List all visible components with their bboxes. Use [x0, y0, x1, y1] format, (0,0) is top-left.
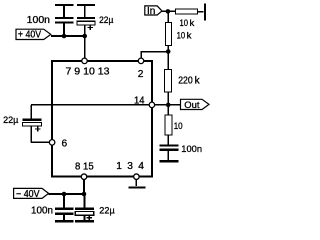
wire rail down to supply pins [84, 36, 86, 58]
wire pin 1 3 4 to ground [135, 180, 137, 186]
wire -40V rail [49, 193, 85, 195]
wire R3 to output node [167, 92, 169, 105]
wire In to node [162, 10, 168, 12]
svg-text:22µ: 22µ [3, 115, 19, 126]
capacitor C3 22u (bootstrap, left) [30, 105, 32, 119]
svg-text:4: 4 [138, 161, 144, 172]
svg-text:6: 6 [62, 138, 68, 149]
svg-text:+ 40V: + 40V [18, 30, 42, 41]
node on -40V rail at C5 [62, 192, 67, 197]
resistor R3 220k (feedback) [165, 69, 172, 92]
wire R2 to node A [167, 46, 169, 52]
resistor R4 10 (Zobel) [165, 115, 172, 135]
wire feedback line C3 to pin 14 [31, 104, 149, 106]
plus sign of C2 [88, 25, 93, 30]
supply tag -40V [14, 188, 49, 198]
wire C3 to pin 6 [31, 141, 49, 143]
svg-text:Out: Out [184, 100, 200, 111]
plus sign of C3 [35, 126, 40, 131]
pin 8 15 circle [81, 174, 87, 180]
resistor R2 10k (vertical) [166, 22, 172, 45]
wire R4 to C4 [167, 135, 169, 144]
node A (R2/R3/pin 2 junction) [166, 49, 171, 54]
pin 14 circle [149, 102, 155, 108]
wire node A to R3 [167, 52, 169, 70]
wire node B down to R4 [167, 105, 169, 115]
plus sign of C6 [87, 215, 92, 220]
svg-text:In: In [147, 6, 155, 17]
node B (output junction) [166, 103, 171, 108]
pin 2 circle [138, 58, 144, 64]
svg-text:22µ: 22µ [99, 206, 115, 217]
node on rail at C1 [62, 34, 67, 39]
svg-text:100n: 100n [27, 15, 51, 26]
ground (below C6) [75, 220, 94, 222]
pin 6 circle [49, 140, 55, 146]
svg-text:10: 10 [180, 18, 189, 29]
ground (below C4) [159, 160, 178, 162]
wire pin 8 15 down to -40V rail [83, 180, 85, 194]
svg-text:2: 2 [138, 69, 144, 80]
capacitor C5 100n (bottom decoupling) [63, 194, 65, 208]
ground (below C5) [55, 220, 74, 222]
pin 1 3 4 circle [134, 174, 140, 180]
capacitor C6 22u (bottom electrolytic) [83, 194, 85, 208]
capacitor C2 22u (top electrolytic) [84, 6, 86, 17]
svg-text:100n: 100n [181, 144, 202, 155]
capacitor C1 100n (top left decoupling) [63, 6, 65, 17]
wire pin 14 to output node [155, 104, 168, 106]
svg-text:7 9 10 13: 7 9 10 13 [66, 67, 110, 78]
svg-text:10: 10 [174, 121, 183, 132]
ground (below pins 1 3 4) [129, 186, 146, 188]
capacitor C4 100n (Zobel) [159, 144, 178, 146]
ground (right of R1) [204, 4, 206, 21]
wire node to R1 [168, 10, 175, 12]
svg-text:3: 3 [127, 161, 133, 172]
svg-text:k: k [187, 31, 192, 42]
svg-text:k: k [190, 18, 195, 29]
ground (top, above C2) [77, 4, 95, 6]
svg-text:10: 10 [177, 31, 186, 42]
node at In [166, 9, 171, 14]
svg-text:220: 220 [178, 75, 193, 86]
node on -40V rail at C6 [82, 192, 87, 197]
supply tag +40V [16, 29, 51, 39]
svg-text:22µ: 22µ [99, 15, 114, 25]
svg-text:8 15: 8 15 [75, 161, 94, 172]
wire node A to pin 2 [141, 52, 168, 59]
output tag Out [181, 99, 210, 109]
ground (top-left, above C1) [55, 4, 73, 6]
svg-text:1: 1 [116, 161, 122, 172]
wire +40V rail [51, 35, 86, 37]
wire node down to R2 [167, 11, 169, 22]
wire R1 to ground bar [198, 11, 204, 13]
input tag In [145, 6, 162, 15]
svg-text:− 40V: − 40V [16, 189, 40, 200]
resistor R1 10k (horizontal, to ground) [175, 9, 197, 14]
op-amp IC U1 body [52, 61, 152, 177]
svg-text:14: 14 [134, 95, 145, 106]
svg-text:100n: 100n [31, 206, 53, 217]
wire node B to Out tag [168, 104, 180, 106]
node on rail at C2 [82, 34, 87, 39]
pin 7 9 10 13 circle [82, 58, 88, 64]
